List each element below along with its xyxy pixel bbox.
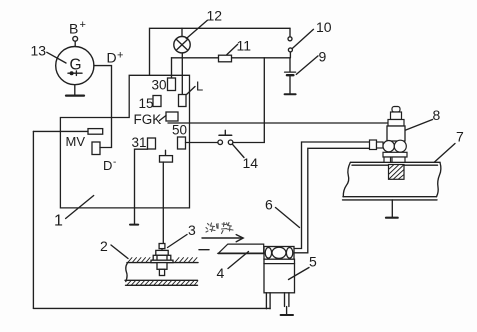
svg-text:G: G [70, 57, 82, 74]
hatch in glow plug tip [389, 165, 404, 179]
svg-text:31: 31 [132, 135, 147, 150]
leader line 9 [296, 56, 318, 75]
svg-text:FGK: FGK [134, 112, 162, 127]
svg-text:L: L [196, 79, 203, 94]
solenoid valve 5 [264, 247, 295, 293]
svg-text:9: 9 [319, 49, 327, 65]
svg-text:MV: MV [66, 134, 86, 149]
leader line 2 [111, 245, 128, 259]
svg-text:3: 3 [188, 222, 196, 238]
leader line 1 [66, 196, 94, 219]
leader line 12 [186, 20, 207, 38]
terminal B+ [73, 36, 78, 46]
flow text (blurred CJK) [206, 223, 233, 234]
svg-text:1: 1 [54, 213, 63, 230]
leader line 8 [406, 120, 433, 131]
switch 14 [218, 130, 233, 144]
pipe 2 [125, 258, 198, 286]
wire terminal 31 to ground [135, 149, 148, 224]
wire left loop vertical [32, 131, 34, 308]
svg-text:2: 2 [100, 238, 108, 254]
svg-text:30: 30 [152, 78, 167, 93]
wire switch 14 to battery rail [233, 58, 264, 143]
svg-text:4: 4 [217, 265, 225, 281]
dash mark [199, 249, 209, 251]
terminal FGK [166, 112, 178, 121]
wire lamp to terminal L [181, 53, 183, 95]
battery 9 [285, 58, 296, 94]
svg-text:D: D [107, 50, 117, 66]
wire to terminal 30 [171, 58, 173, 78]
wire top rail from control unit to switch 10 [150, 28, 291, 75]
leader line 11 [227, 44, 238, 54]
control unit 1 outline [60, 75, 189, 208]
svg-text:15: 15 [139, 96, 154, 111]
wire resistor rail [172, 57, 291, 59]
leader line 14 [233, 145, 244, 158]
wire bottom rail to valve 5 [33, 307, 270, 309]
fuel pipe 6 [295, 142, 370, 253]
svg-text:5: 5 [309, 254, 317, 270]
wire MV to left loop [33, 130, 88, 132]
svg-text:7: 7 [456, 129, 464, 145]
svg-text:B: B [69, 21, 78, 37]
heater glow plug 3 [151, 244, 173, 276]
svg-text:+: + [117, 50, 123, 62]
terminal 30 [168, 78, 176, 91]
wire lamp top stub [181, 28, 183, 36]
svg-text:13: 13 [31, 43, 47, 59]
wire FGK to flame glow plug 8 [168, 122, 390, 124]
terminal FGK output T [160, 150, 173, 162]
svg-text:D: D [103, 158, 112, 173]
svg-text:12: 12 [207, 8, 223, 24]
flow arrow [202, 235, 243, 242]
svg-text:14: 14 [243, 155, 259, 171]
ground under intake pipe 7 [386, 200, 398, 218]
leader line 13 [47, 52, 66, 63]
svg-text:11: 11 [237, 38, 252, 54]
terminal 15 [153, 96, 161, 107]
terminal D- [92, 142, 100, 155]
ground under valve 5 [281, 307, 293, 316]
leader line 5 [289, 268, 310, 280]
generator 13 [56, 47, 94, 85]
svg-text:-: - [113, 157, 116, 168]
svg-text:8: 8 [433, 107, 441, 123]
suction pipe 4 [218, 244, 264, 253]
svg-text:50: 50 [172, 123, 187, 138]
terminal 50 [178, 137, 186, 149]
leader line 3 [168, 235, 188, 248]
svg-text:+: + [80, 19, 86, 31]
ground under control unit [130, 224, 138, 226]
ground under generator [66, 85, 84, 96]
wire FGK output down to heater plug 3 [162, 162, 164, 244]
wire generator D+ to terminal D- [94, 66, 112, 148]
leader line 7 [435, 144, 456, 163]
switch 10 [288, 28, 314, 58]
resistor 11 [219, 55, 232, 62]
indicator lamp 12 [174, 37, 190, 53]
svg-text:6: 6 [265, 197, 273, 213]
valve 5 legs [266, 293, 289, 309]
intake pipe 7 [343, 162, 441, 200]
wire terminal 50 to switch 14 [186, 142, 218, 144]
leader line 6 [276, 208, 300, 228]
terminal MV [88, 129, 103, 135]
terminal L [179, 95, 187, 107]
svg-text:10: 10 [316, 19, 332, 35]
terminal 31 [148, 138, 156, 149]
leader line 4 [228, 252, 249, 269]
flame glow plug 8 [370, 107, 408, 180]
